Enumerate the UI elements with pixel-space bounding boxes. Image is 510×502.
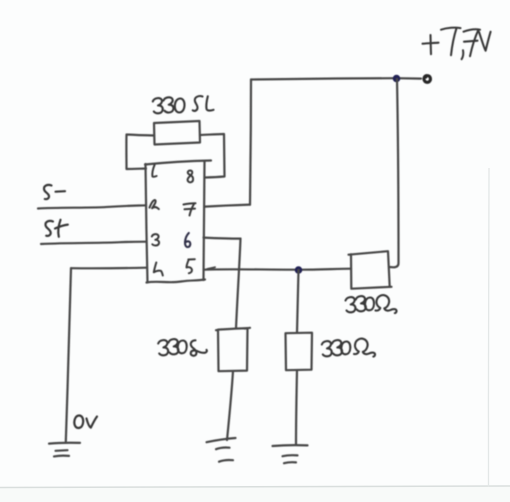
wire pin 4 to ground G1 <box>66 268 146 442</box>
pin 6 label <box>185 233 190 247</box>
wire St to pin 3 <box>41 242 146 244</box>
ground G3 <box>273 445 308 463</box>
wire node B down to R3 <box>297 270 299 333</box>
label R4 330 ohm <box>346 295 397 313</box>
ground G1 <box>49 443 80 457</box>
label S- <box>44 185 65 199</box>
resistor R1 330R top <box>154 121 200 145</box>
label +7,7V <box>423 28 491 60</box>
wire S- to pin 2 <box>38 205 146 208</box>
junction node B <box>295 266 303 274</box>
wire pin 7 to +7.7V terminal <box>205 78 421 206</box>
pin 7 label <box>184 203 196 215</box>
resistor R3 330R bottom mid <box>286 333 313 371</box>
wire R2 to ground G2 <box>227 371 233 440</box>
pin 2 label <box>150 200 159 209</box>
label R2 330 ohm <box>158 339 207 356</box>
wire R1 right to pin 8 <box>200 134 225 178</box>
junction node A <box>393 75 401 83</box>
pin 1 label <box>152 165 156 177</box>
wire pin 6 down to R2 <box>204 238 241 329</box>
IC U1 <box>145 161 211 283</box>
paper fold line horizontal <box>0 486 510 488</box>
label R1 330 ohm <box>153 96 214 113</box>
wire R3 to ground G3 <box>296 370 297 444</box>
wire node A down to R4 <box>390 79 399 267</box>
resistor R4 330R right <box>349 251 392 289</box>
resistor R2 330R bottom left <box>216 328 250 371</box>
pin 5 label <box>187 259 195 273</box>
pin 3 label <box>152 234 159 245</box>
pin 8 label <box>188 170 194 182</box>
paper edge line vertical <box>487 168 490 487</box>
label 0v <box>74 415 97 428</box>
terminal +7.7V <box>424 76 430 83</box>
wire pin 5 to R4 left with junction <box>204 267 352 270</box>
ground G2 <box>207 438 236 462</box>
label R3 330 ohm <box>322 339 375 357</box>
label St <box>45 220 67 237</box>
pin 4 label <box>154 263 163 276</box>
wire pin1 to R1 left <box>126 135 154 170</box>
